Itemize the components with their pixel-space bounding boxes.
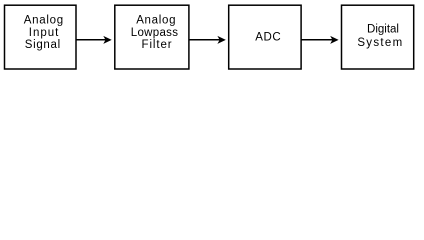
wire: arrow 3: [301, 36, 339, 44]
svg-text:Analog: Analog: [136, 15, 176, 27]
svg-text:Analog: Analog: [24, 15, 64, 27]
svg-text:System: System: [357, 37, 403, 49]
block: Analog Input Signal: [5, 5, 77, 69]
wire: arrow 2: [189, 36, 226, 44]
block: Analog Lowpass Filter: [115, 5, 189, 69]
svg-text:ADC: ADC: [255, 32, 281, 44]
wire: arrow 1: [76, 36, 112, 44]
svg-text:Input: Input: [29, 27, 60, 39]
svg-text:Signal: Signal: [25, 39, 61, 51]
block: ADC: [229, 5, 301, 69]
svg-text:Lowpass: Lowpass: [131, 27, 179, 39]
svg-text:Filter: Filter: [142, 39, 173, 51]
svg-text:Digital: Digital: [367, 23, 399, 35]
block: Digital System: [342, 5, 414, 69]
